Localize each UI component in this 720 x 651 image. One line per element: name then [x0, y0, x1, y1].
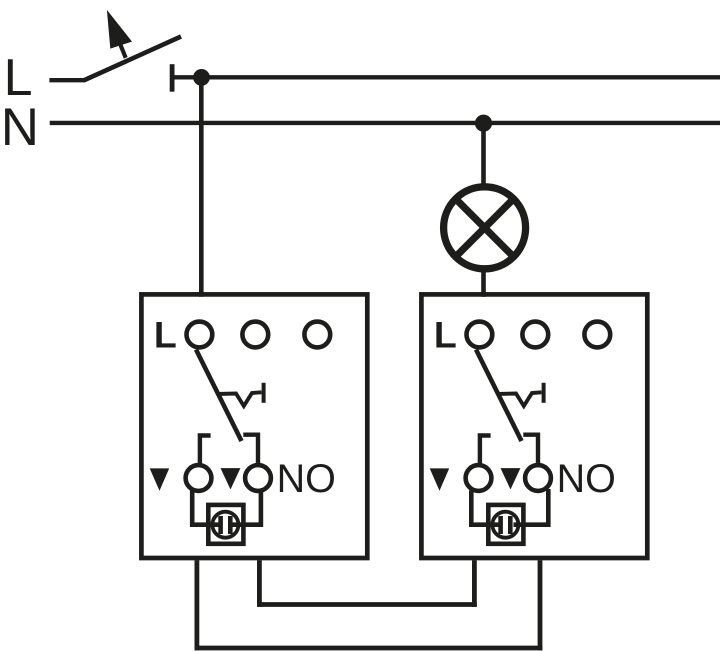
- U1 left contact bracket: [200, 436, 211, 464]
- svg-text:NO: NO: [277, 457, 336, 501]
- pushbutton insert U1 enclosure box: [141, 294, 367, 558]
- U2 glow lamp electrode 2: [508, 516, 513, 534]
- switch S1 fixed contact tick: [170, 64, 175, 92]
- wire from L junction down to left box: [199, 77, 204, 296]
- wire U2 exit 1 down: [472, 560, 477, 607]
- U1 switch blade: [196, 350, 242, 442]
- wire L line: [172, 75, 720, 79]
- U1 arrow marker middle: [221, 468, 241, 489]
- lamp E1 cross stroke 1: [456, 199, 514, 257]
- U1 bottom terminal 2: [245, 465, 271, 491]
- U2 spring contact bar: [542, 383, 546, 403]
- wire U1 exit 2 down: [257, 560, 262, 607]
- svg-text:L: L: [434, 314, 457, 356]
- pushbutton insert U2 enclosure box: [421, 294, 647, 558]
- U1 bottom terminal 1: [186, 465, 212, 491]
- U1 glow lamp wire left: [192, 491, 218, 525]
- U1 pushbutton spring zigzag: [217, 392, 262, 406]
- wire outer U connection: [195, 646, 543, 651]
- U1 glow lamp electrode 1: [218, 516, 223, 534]
- wire U2 exit 2 down: [538, 560, 543, 650]
- U1 glow lamp wire right: [233, 491, 261, 525]
- wire from N junction down to lamp: [481, 123, 486, 188]
- svg-text:NO: NO: [557, 457, 616, 501]
- U2 glow lamp wire left: [471, 491, 498, 525]
- wire inner U connection: [257, 602, 477, 607]
- U2 terminal circle 1 (L): [467, 322, 493, 348]
- U2 arrow marker left: [430, 468, 450, 490]
- U1 arrow marker left: [150, 468, 170, 490]
- wire L stub: [49, 78, 84, 82]
- U1 glow lamp electrode 2: [228, 516, 233, 534]
- node junction dot on N: [475, 115, 492, 132]
- node junction dot on L: [193, 69, 210, 86]
- U2 glow lamp square: [488, 505, 523, 544]
- U2 switch blade: [476, 350, 522, 442]
- U1 spring contact bar: [262, 383, 266, 403]
- U2 arrow marker middle: [501, 468, 521, 489]
- U2 bottom terminal 1: [466, 465, 492, 491]
- U1 glow lamp square: [208, 505, 243, 544]
- U2 left contact bracket: [480, 436, 491, 464]
- U2 bottom terminal 2: [525, 465, 551, 491]
- lamp E1 cross stroke 2: [456, 199, 514, 257]
- U1 terminal circle 1 (L): [187, 322, 213, 348]
- svg-text:N: N: [1, 98, 39, 157]
- U2 terminal circle 3: [584, 322, 610, 348]
- switch S1 blade: [84, 37, 182, 81]
- lamp E1 circle: [444, 187, 526, 269]
- wire N line: [50, 121, 720, 125]
- U1 glow lamp circle: [212, 512, 238, 538]
- U1 terminal circle 2: [242, 322, 268, 348]
- svg-text:L: L: [154, 314, 177, 356]
- U1 terminal circle 3: [304, 322, 330, 348]
- U1 right contact bracket: [243, 435, 258, 464]
- U2 pushbutton spring zigzag: [497, 392, 542, 406]
- wire from lamp down to right box: [481, 268, 486, 297]
- U2 glow lamp wire right: [514, 489, 549, 525]
- switch S1 actuation arrowhead: [107, 10, 132, 49]
- U2 right contact bracket: [523, 435, 538, 464]
- switch S1 actuation arrow shaft: [120, 43, 126, 58]
- U2 glow lamp circle: [492, 512, 518, 538]
- U2 terminal circle 2: [522, 322, 548, 348]
- U2 glow lamp electrode 1: [498, 516, 503, 534]
- wire U1 exit 1 down: [194, 560, 199, 650]
